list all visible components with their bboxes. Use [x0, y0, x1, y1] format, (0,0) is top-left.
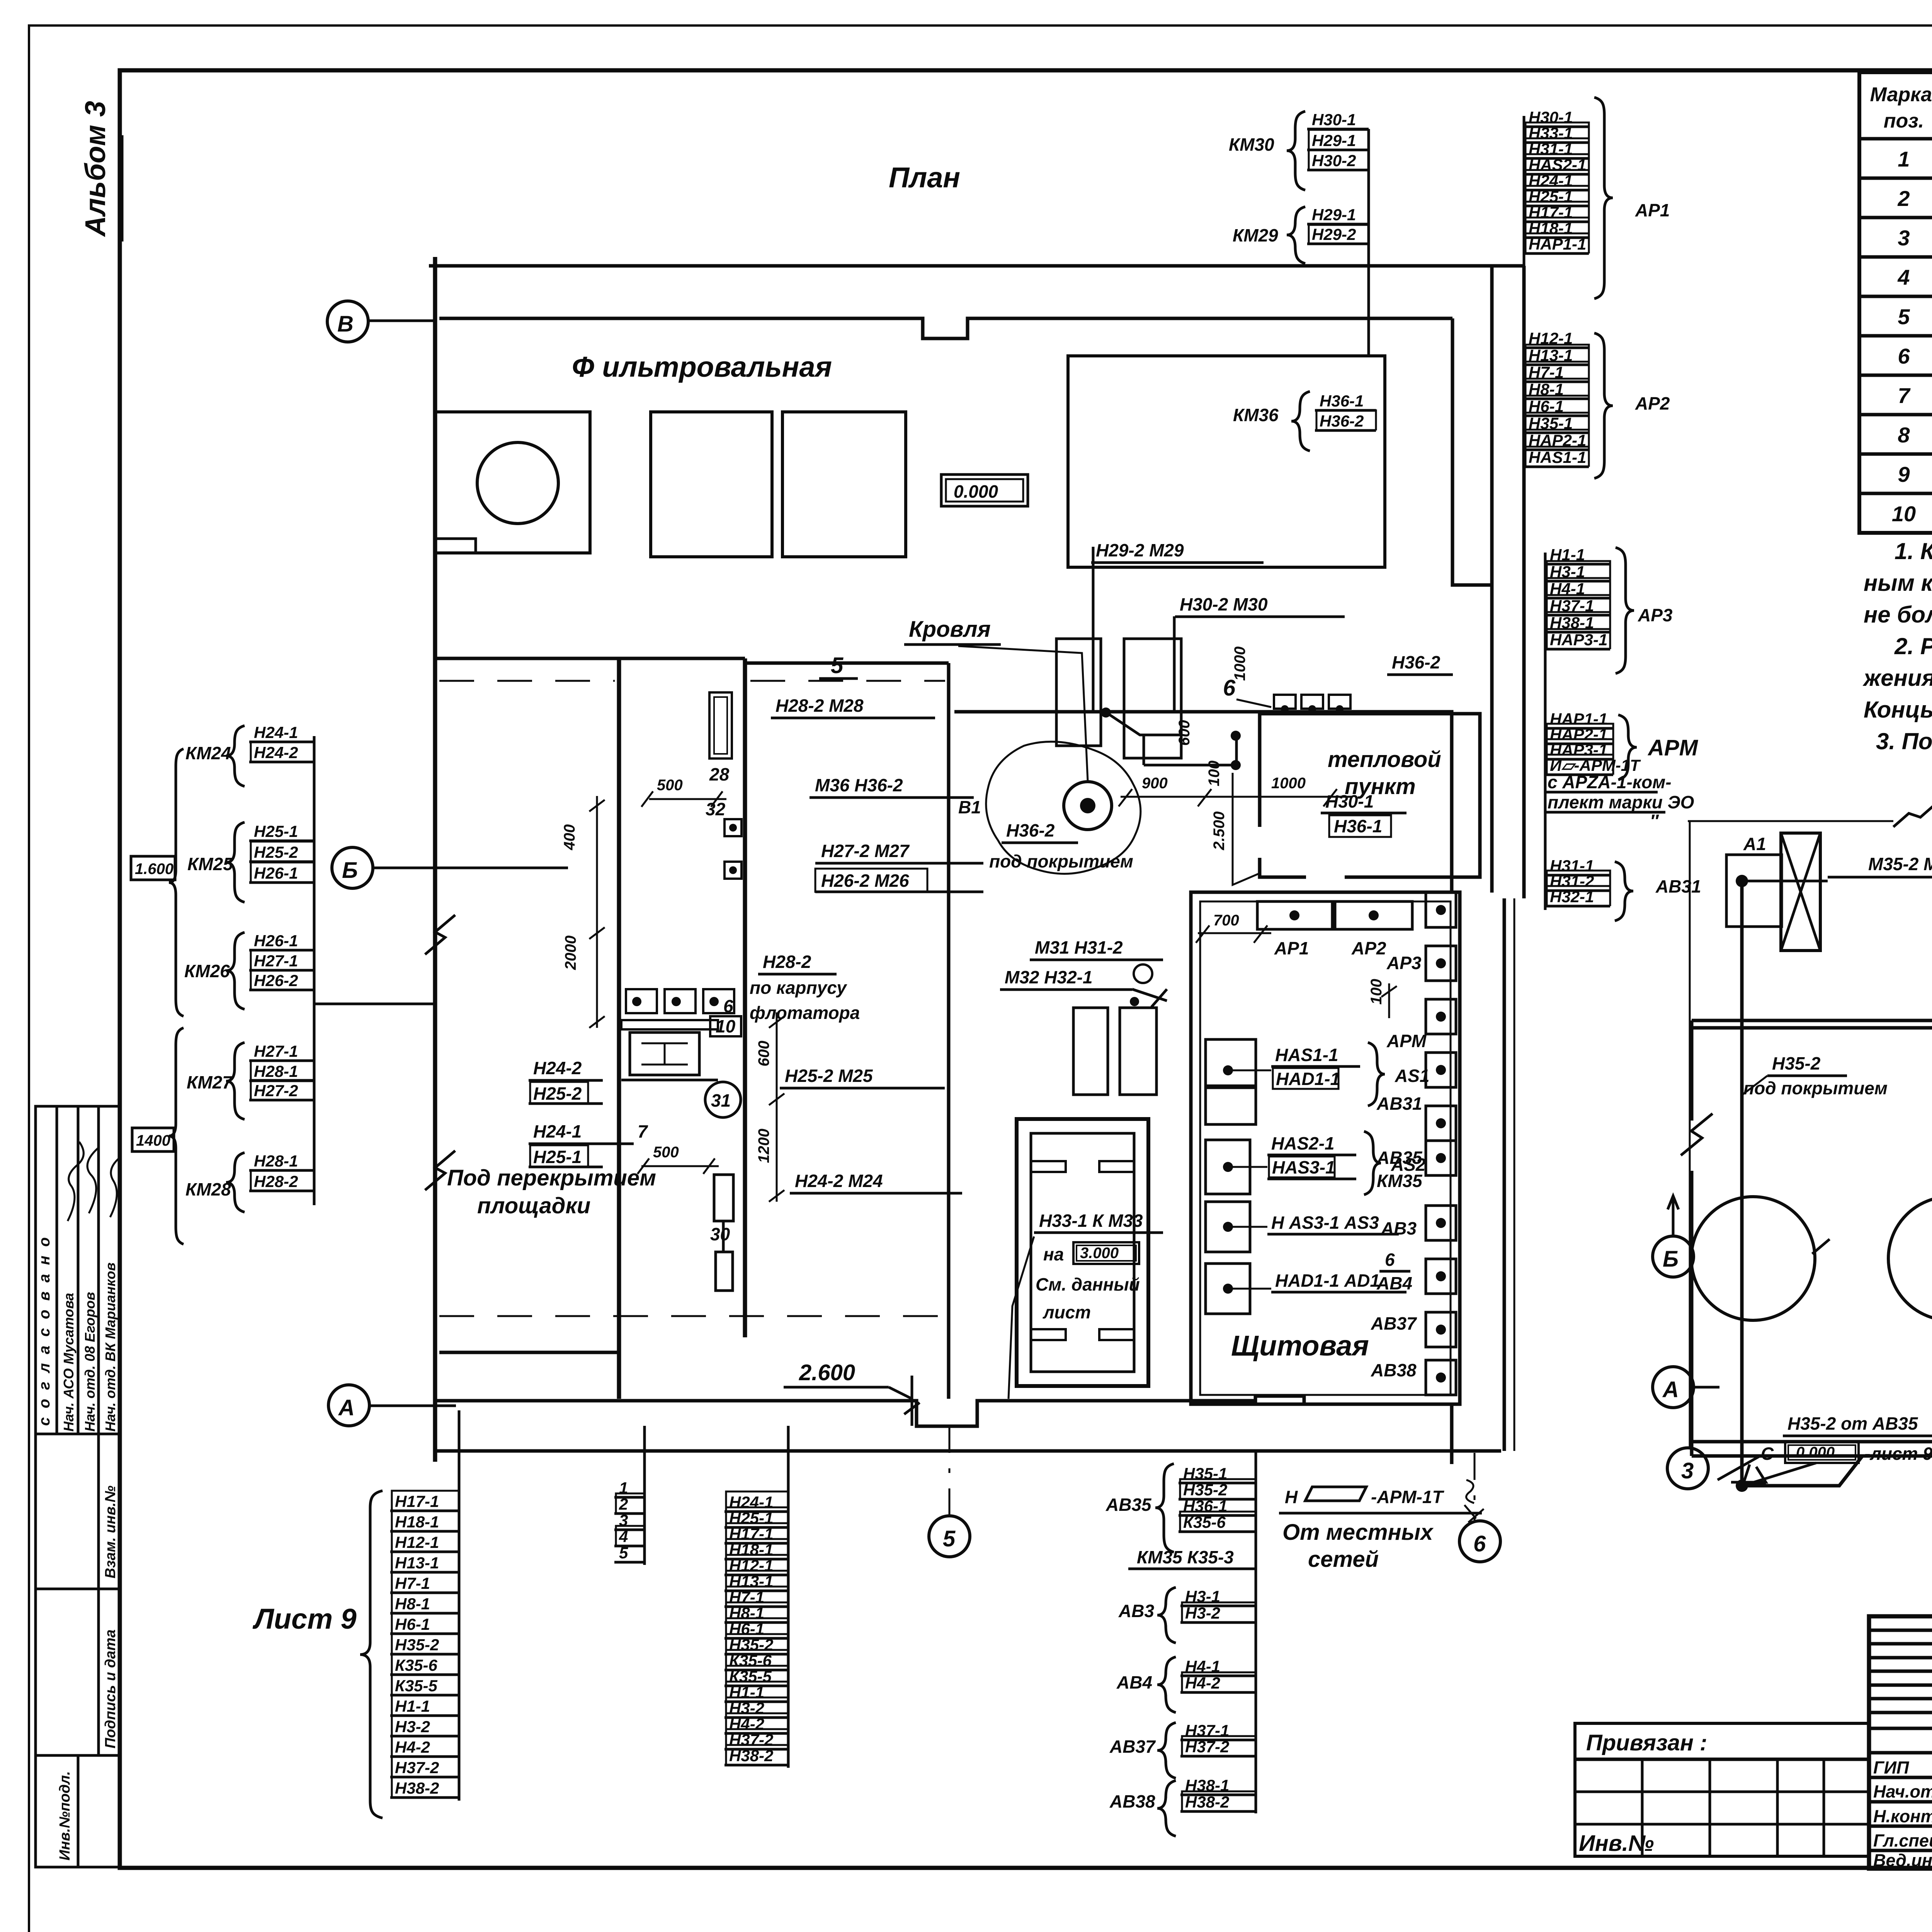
svg-text:АS2: АS2: [1391, 1155, 1426, 1175]
dim 100 small: [1368, 979, 1397, 1018]
bottom wall lower line: [435, 1449, 1501, 1453]
top wall lower line with notch: [439, 318, 1452, 338]
svg-text:Н27-2: Н27-2: [254, 1082, 298, 1100]
breaker boxes right column: [1426, 893, 1456, 1395]
axis B circle: [332, 847, 373, 888]
hall 5 top wall: [435, 657, 745, 660]
label H26-2 M26 boxed: [815, 869, 983, 892]
svg-text:Н27-1: Н27-1: [254, 952, 298, 970]
svg-text:Н18-1: Н18-1: [1529, 219, 1573, 237]
heat point room: [1260, 714, 1480, 877]
svg-text:Щитовая: Щитовая: [1231, 1330, 1369, 1362]
svg-text:Н АS3-1 АS3: Н АS3-1 АS3: [1271, 1213, 1379, 1233]
svg-text:1200: 1200: [755, 1129, 772, 1163]
svg-text:АВ3: АВ3: [1118, 1601, 1154, 1621]
svg-text:Н17-1: Н17-1: [395, 1492, 439, 1510]
svg-text:НАS2-1: НАS2-1: [1529, 156, 1586, 174]
svg-text:Нач. отд. ВК Марианков: Нач. отд. ВК Марианков: [102, 1262, 118, 1432]
svg-text:с о г л а с о в а н о: с о г л а с о в а н о: [36, 1235, 53, 1426]
dashed ceiling line left: [439, 680, 615, 682]
cable from A1 down: [1740, 881, 1744, 1486]
mid tray vertical2: [1544, 553, 1547, 910]
svg-text:30: 30: [710, 1224, 730, 1244]
svg-text:Н30-2 М30: Н30-2 М30: [1180, 594, 1268, 614]
svg-text:″: ″: [1650, 811, 1659, 831]
svg-text:М32 Н32-1: М32 Н32-1: [1005, 967, 1093, 987]
svg-text:Н8-1: Н8-1: [729, 1604, 764, 1622]
level box 1.600: [131, 749, 184, 1016]
svg-text:Н26-2 М26: Н26-2 М26: [821, 871, 909, 891]
svg-text:Н6-1: Н6-1: [729, 1620, 764, 1638]
svg-text:Н29-2: Н29-2: [1312, 225, 1356, 243]
ARM extra lines: [1545, 772, 1694, 831]
svg-text:Н26-2: Н26-2: [254, 971, 298, 990]
svg-text:1. Крепление электрокабелей,: 1. Крепление электрокабелей, прокладывае…: [1895, 538, 1932, 564]
cable group AP1: [1524, 97, 1670, 299]
svg-text:К35-6: К35-6: [395, 1656, 438, 1674]
title block outer: [1869, 1616, 1932, 1869]
svg-text:Н36-2: Н36-2: [1320, 412, 1364, 430]
svg-text:6: 6: [1473, 1531, 1486, 1556]
svg-text:Н27-1: Н27-1: [254, 1042, 298, 1060]
label H28-2 flotator1: [758, 952, 837, 974]
device A1: [1726, 833, 1820, 951]
label H35-2 ot AB35: [1743, 1413, 1932, 1486]
room name heat point: [1328, 747, 1441, 772]
label H29-2 M29: [1091, 540, 1264, 563]
svg-text:Н29-1: Н29-1: [1312, 206, 1356, 224]
svg-text:Н30-1: Н30-1: [1529, 108, 1573, 126]
svg-text:Инв.№подл.: Инв.№подл.: [57, 1771, 73, 1861]
svg-text:От местных: От местных: [1282, 1520, 1434, 1545]
position numbers 1-5: [614, 1479, 645, 1562]
svg-text:НАS2-1: НАS2-1: [1271, 1133, 1335, 1153]
svg-text:АВ4: АВ4: [1376, 1273, 1412, 1293]
svg-text:2000: 2000: [562, 935, 579, 970]
svg-text:Н4-2: Н4-2: [1185, 1674, 1220, 1692]
corner mark bottom: [1718, 1456, 1766, 1482]
svg-text:с АРΖА-1-ком-: с АРΖА-1-ком-: [1548, 772, 1672, 792]
svg-text:4: 4: [1897, 265, 1910, 289]
label M31 H31-2: [1030, 937, 1163, 960]
cable line y1842: [954, 712, 1452, 893]
panel tabs: [1031, 1161, 1066, 1172]
svg-text:КМ29: КМ29: [1233, 225, 1278, 245]
label H24-2 M24: [790, 1171, 962, 1193]
svg-text:3: 3: [1681, 1458, 1694, 1483]
dim 500 upper: [657, 777, 683, 794]
cable group AB3: [1118, 1587, 1256, 1643]
room name punkt: [1345, 774, 1416, 799]
cable group AB31: [1545, 857, 1701, 921]
svg-text:Н24-1: Н24-1: [254, 723, 298, 742]
switchboard room inner: [1200, 901, 1451, 1395]
label pod perekrytiem: [447, 1165, 656, 1190]
AS1 labels: [1228, 1043, 1429, 1106]
svg-text:Б: Б: [1663, 1247, 1679, 1272]
AS3 label: [1228, 1213, 1399, 1234]
svg-text:План: План: [889, 162, 960, 194]
svg-text:Н18-1: Н18-1: [395, 1513, 439, 1531]
svg-text:КМ28: КМ28: [185, 1179, 231, 1199]
left margin table 2: [36, 1434, 120, 1589]
svg-text:АР1: АР1: [1274, 938, 1309, 958]
svg-text:поз.: поз.: [1884, 110, 1924, 132]
svg-text:3. Подключение кабелей К35-: 3. Подключение кабелей К35-3 , К35-4 , К…: [1876, 728, 1932, 754]
svg-text:3.000: 3.000: [1080, 1245, 1119, 1262]
svg-text:Н12-1: Н12-1: [729, 1556, 773, 1575]
svg-text:площадки: площадки: [477, 1193, 590, 1218]
svg-text:Н36-1: Н36-1: [1320, 392, 1364, 410]
svg-text:6: 6: [1898, 344, 1910, 368]
AD1 label: [1228, 1270, 1406, 1292]
svg-text:Н30-1: Н30-1: [1312, 111, 1356, 129]
svg-text:Н37-2: Н37-2: [729, 1731, 773, 1749]
bottom corner cable: [1742, 1456, 1862, 1486]
svg-text:2.600: 2.600: [799, 1360, 855, 1385]
svg-text:1.600: 1.600: [135, 861, 173, 878]
svg-text:М36 Н36-2: М36 Н36-2: [815, 775, 903, 795]
svg-text:КМ26: КМ26: [184, 961, 230, 981]
axis A2 circle: [1653, 1367, 1694, 1408]
dim line 500: [641, 791, 726, 807]
cable group KM36: [1233, 391, 1376, 451]
svg-text:Н38-2: Н38-2: [729, 1747, 773, 1765]
bottom tray vertical: [1255, 1451, 1257, 1813]
switchboard room outer: [1191, 892, 1460, 1404]
corridor step: [1452, 318, 1493, 585]
switch labels column: [1371, 953, 1427, 1380]
label H36-2 top: [1387, 652, 1453, 675]
bottom wall upper line: [435, 1396, 1453, 1426]
svg-text:Н7-1: Н7-1: [395, 1574, 430, 1592]
svg-text:АВ31: АВ31: [1655, 876, 1701, 896]
svg-text:АВ38: АВ38: [1109, 1791, 1155, 1811]
right plan bottom wall: [1692, 1442, 1932, 1456]
cable M30 vertical: [1173, 616, 1176, 712]
svg-text:Н33-1: Н33-1: [1529, 124, 1573, 142]
svg-text:Н37-2: Н37-2: [395, 1759, 439, 1777]
svg-text:600: 600: [1176, 720, 1193, 746]
svg-text:Н38-2: Н38-2: [1185, 1793, 1229, 1811]
svg-text:1000: 1000: [1271, 775, 1306, 792]
svg-text:10: 10: [716, 1016, 736, 1036]
svg-text:Н13-1: Н13-1: [729, 1572, 773, 1590]
svg-text:5: 5: [943, 1526, 956, 1551]
svg-text:АР3: АР3: [1386, 953, 1422, 973]
label po korpusu: [750, 978, 847, 998]
label H30-2 M30: [1175, 594, 1345, 617]
svg-text:10: 10: [1892, 502, 1916, 526]
svg-text:НАS1-1: НАS1-1: [1275, 1045, 1338, 1065]
svg-text:Н3-2: Н3-2: [395, 1718, 430, 1736]
svg-text:Н24-1: Н24-1: [533, 1121, 582, 1141]
svg-text:АРМ: АРМ: [1386, 1031, 1427, 1051]
svg-text:Н25-2: Н25-2: [533, 1083, 582, 1104]
svg-text:Н25-2 М25: Н25-2 М25: [785, 1066, 873, 1086]
svg-text:Гл.спец.: Гл.спец.: [1873, 1831, 1932, 1850]
svg-text:9: 9: [1898, 462, 1910, 486]
hall 5 right wall: [947, 663, 951, 1399]
svg-text:лист: лист: [1043, 1302, 1091, 1322]
svg-text:700: 700: [1213, 912, 1239, 929]
svg-text:900: 900: [1142, 775, 1168, 792]
svg-text:К35-5: К35-5: [395, 1677, 438, 1695]
svg-text:Н25-2: Н25-2: [254, 843, 298, 861]
svg-text:АРМ: АРМ: [1647, 735, 1699, 760]
svg-text:М35-2 М35: М35-2 М35: [1868, 854, 1932, 874]
svg-text:3: 3: [1898, 226, 1910, 250]
svg-text:Н28-1: Н28-1: [254, 1062, 298, 1080]
tank circle: [1888, 1197, 1932, 1320]
svg-text:Н35-2: Н35-2: [1772, 1053, 1821, 1073]
svg-text:В1: В1: [958, 797, 981, 817]
axis B2 arrow: [1668, 1196, 1679, 1236]
cable group KM24: [185, 723, 314, 786]
svg-text:Н32-1: Н32-1: [1550, 888, 1594, 906]
svg-text:на: на: [1043, 1244, 1064, 1264]
svg-text:28: 28: [709, 764, 730, 784]
svg-text:Н12-1: Н12-1: [395, 1533, 439, 1551]
label 2.600: [784, 1360, 889, 1387]
svg-text:Н3-2: Н3-2: [1185, 1604, 1220, 1622]
svg-text:АР1: АР1: [1635, 200, 1670, 220]
svg-text:5: 5: [619, 1544, 628, 1562]
label H30-1 H36-1: [1321, 791, 1406, 837]
svg-text:Привязан :: Привязан :: [1586, 1730, 1707, 1755]
left margin table 4: [36, 1755, 120, 1867]
axis A circle: [328, 1385, 369, 1426]
svg-text:Н30-2: Н30-2: [1312, 151, 1356, 170]
svg-text:АР3: АР3: [1638, 605, 1673, 625]
svg-text:НАS3-1: НАS3-1: [1272, 1157, 1335, 1177]
svg-text:-лист 9: -лист 9: [1864, 1444, 1932, 1464]
AS2 labels: [1228, 1131, 1426, 1195]
label M35-2 M35: [1742, 854, 1932, 881]
small squares 32: [724, 819, 742, 836]
svg-text:600: 600: [755, 1041, 772, 1066]
dim 1000b: [1271, 775, 1306, 792]
cable group AB35: [1105, 1464, 1256, 1552]
filter tank circle: [477, 442, 558, 524]
cable group KM30: [1229, 111, 1369, 190]
dim line 500b: [638, 1158, 719, 1174]
filter tank square: [435, 412, 590, 553]
axis 6 circle: [1459, 1521, 1500, 1562]
svg-text:2: 2: [619, 1495, 628, 1513]
room name filter hall: [572, 351, 832, 383]
svg-text:Кровля: Кровля: [909, 617, 991, 642]
svg-text:Н35-2: Н35-2: [395, 1636, 439, 1654]
svg-text:7: 7: [638, 1121, 648, 1141]
svg-text:НАS1-1: НАS1-1: [1529, 448, 1586, 466]
svg-text:Н24-2 М24: Н24-2 М24: [795, 1171, 883, 1191]
label H24-1 H25-1 boxed: [529, 1121, 648, 1167]
svg-text:Ф ильтровальная: Ф ильтровальная: [572, 351, 832, 383]
cable jogs: [1105, 712, 1236, 765]
dots: [1101, 707, 1111, 718]
svg-text:АВ31: АВ31: [1376, 1094, 1422, 1114]
svg-text:Альбом 3: Альбом 3: [79, 101, 111, 237]
label N ARM-1T: [1279, 1480, 1484, 1572]
svg-text:Н: Н: [1285, 1487, 1298, 1507]
label ploshchadki: [477, 1193, 590, 1218]
svg-text:А1: А1: [1743, 834, 1766, 854]
svg-text:2. Раскладку труб в полах: 2. Раскладку труб в полах для электропро…: [1894, 633, 1932, 659]
svg-text:АВ35: АВ35: [1105, 1495, 1152, 1515]
svg-text:под покрытием: под покрытием: [1743, 1078, 1888, 1098]
AP1 AP2 boxes: [1257, 901, 1412, 958]
svg-text:Н28-2: Н28-2: [763, 952, 811, 972]
svg-text:АВ37: АВ37: [1109, 1736, 1156, 1757]
axis 6 dash line: [1474, 1453, 1476, 1520]
column pair upper: [1056, 639, 1101, 746]
list9 brace: [360, 1491, 383, 1818]
cable group AB37: [1109, 1721, 1256, 1778]
svg-text:А: А: [1662, 1377, 1679, 1402]
svg-text:2: 2: [1897, 186, 1910, 211]
svg-text:Н28-1: Н28-1: [254, 1152, 298, 1170]
svg-text:Подпись и дата: Подпись и дата: [102, 1629, 119, 1748]
cable group AB38: [1109, 1776, 1256, 1836]
m32 symbols: [1134, 964, 1152, 983]
svg-text:Н13-1: Н13-1: [395, 1554, 439, 1572]
axis B line: [373, 867, 568, 869]
cable group AP2: [1524, 329, 1670, 478]
svg-text:Н27-2 М27: Н27-2 М27: [821, 841, 910, 861]
svg-text:АР2: АР2: [1351, 938, 1386, 958]
axis A line: [369, 1405, 456, 1407]
dim 700: [1196, 912, 1271, 943]
dim line 900-1000: [1119, 789, 1352, 806]
svg-text:500: 500: [657, 777, 683, 794]
svg-text:100: 100: [1368, 979, 1385, 1005]
cable group KM28: [185, 1152, 314, 1212]
axis V circle: [327, 301, 368, 342]
dim 2500 line: [1233, 773, 1260, 885]
svg-text:М31 Н31-2: М31 Н31-2: [1035, 937, 1123, 957]
svg-text:К35-6: К35-6: [729, 1651, 772, 1670]
svg-text:Н25-1: Н25-1: [729, 1509, 773, 1527]
svg-text:Н31-1: Н31-1: [1529, 140, 1573, 158]
svg-text:КМ35 К35-3: КМ35 К35-3: [1137, 1547, 1234, 1567]
axis A2 line: [1694, 1386, 1719, 1389]
svg-text:Н29-2 М29: Н29-2 М29: [1096, 540, 1184, 560]
svg-text:5: 5: [831, 653, 844, 678]
svg-text:К35-5: К35-5: [729, 1667, 772, 1685]
svg-text:Н36-1: Н36-1: [1334, 816, 1382, 836]
svg-text:Н25-1: Н25-1: [254, 822, 298, 840]
wall break marks: [1812, 934, 1932, 1437]
svg-text:Н8-1: Н8-1: [395, 1595, 430, 1613]
svg-text:Н26-1: Н26-1: [254, 932, 298, 950]
svg-text:НАD1-1 АD1: НАD1-1 АD1: [1275, 1270, 1380, 1291]
dashed ceiling line hall: [750, 680, 945, 682]
svg-text:32: 32: [706, 799, 726, 819]
svg-text:6: 6: [1385, 1250, 1395, 1270]
rect 30: [710, 1175, 733, 1291]
svg-text:Под перекрытием: Под перекрытием: [447, 1165, 656, 1190]
svg-text:Н26-1: Н26-1: [254, 864, 298, 882]
room KM36 rect: [1068, 356, 1385, 567]
svg-text:по карпусу: по карпусу: [750, 978, 847, 998]
svg-text:Н36-2: Н36-2: [1392, 652, 1440, 672]
svg-text:не более 800 мм .: не более 800 мм .: [1864, 602, 1932, 628]
left margin table 3: [36, 1589, 120, 1755]
svg-text:Н24-1: Н24-1: [1529, 172, 1573, 190]
label flotatora: [750, 1003, 860, 1023]
KM stacks tray line: [313, 736, 316, 1205]
axis 5 dash line: [949, 1426, 951, 1515]
roof leader: [958, 646, 1088, 781]
cable group AP3: [1545, 546, 1673, 673]
svg-text:КМ25: КМ25: [187, 854, 233, 874]
axis 5 circle: [929, 1516, 970, 1557]
svg-text:1000: 1000: [1231, 646, 1248, 681]
svg-text:Н17-1: Н17-1: [729, 1525, 773, 1543]
svg-text:АS1: АS1: [1395, 1066, 1429, 1086]
svg-text:НАР3-1: НАР3-1: [1550, 631, 1607, 649]
dim chain vertical2: [769, 1012, 784, 1202]
label 6 underline: [1379, 1250, 1410, 1271]
wall line above bottom: [439, 1351, 619, 1354]
cable group KM25: [187, 822, 314, 902]
svg-text:под покрытием: под покрытием: [989, 851, 1133, 871]
svg-text:Н28-2: Н28-2: [254, 1172, 298, 1190]
svg-text:АВ38: АВ38: [1371, 1360, 1417, 1380]
left exterior wall: [433, 257, 437, 1462]
svg-text:0.000: 0.000: [1796, 1444, 1835, 1461]
numbers tray: [643, 1426, 646, 1565]
filter tank notch: [435, 539, 476, 553]
svg-text:тепловой: тепловой: [1328, 747, 1441, 772]
svg-text:Н24-2: Н24-2: [533, 1058, 582, 1078]
axis B2 circle: [1653, 1236, 1694, 1277]
svg-text:А: А: [338, 1395, 355, 1420]
cable group KM26: [184, 932, 314, 1009]
axis V line: [368, 320, 435, 322]
label H25-2 M25: [780, 1066, 945, 1088]
panel cabinet inner: [1031, 1133, 1134, 1372]
svg-text:КМ24: КМ24: [185, 743, 231, 763]
small rect 28: [709, 692, 732, 784]
dim 500 lower: [653, 1144, 679, 1161]
svg-text:31: 31: [711, 1090, 731, 1111]
right corridor wall outer: [1490, 267, 1494, 893]
svg-text:Вед.инж.: Вед.инж.: [1873, 1850, 1932, 1870]
svg-text:НАD1-1: НАD1-1: [1276, 1069, 1340, 1089]
svg-text:Взам. инв.№: Взам. инв.№: [102, 1486, 119, 1578]
cable group ARM: [1545, 710, 1699, 780]
label H36-2 under cover: [1002, 820, 1078, 843]
svg-text:Н38-2: Н38-2: [395, 1779, 439, 1797]
svg-text:ным конструкциям, выполнить: ным конструкциям, выполнить скобами и мо…: [1864, 570, 1932, 596]
wall break marks: [425, 915, 455, 1190]
svg-text:Н4-2: Н4-2: [729, 1715, 764, 1733]
svg-text:НАР1-1: НАР1-1: [1529, 235, 1586, 253]
mid tray vertical1: [1523, 116, 1526, 479]
svg-text:500: 500: [653, 1144, 679, 1161]
svg-text:Н35-2: Н35-2: [729, 1636, 773, 1654]
svg-text:АВ37: АВ37: [1371, 1313, 1417, 1333]
label Krovlya: [904, 617, 1001, 645]
svg-text:4: 4: [619, 1527, 628, 1546]
hall top line: [745, 662, 949, 665]
svg-text:8: 8: [1898, 423, 1910, 447]
signatures scribbles: [68, 1142, 83, 1221]
svg-text:6: 6: [723, 996, 733, 1016]
svg-text:Н36-2: Н36-2: [1006, 820, 1055, 840]
